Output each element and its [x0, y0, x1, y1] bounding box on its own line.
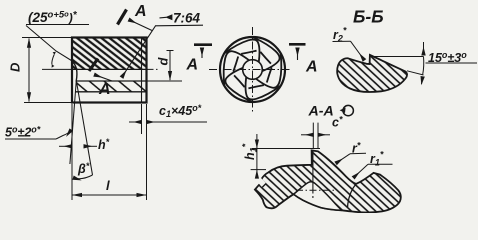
svg-text:7:64: 7:64 — [173, 11, 201, 26]
svg-text:A: A — [305, 59, 318, 76]
svg-text:A: A — [186, 57, 199, 74]
svg-text:d: d — [156, 57, 171, 66]
svg-text:D: D — [8, 62, 23, 72]
svg-text:Б-Б: Б-Б — [353, 7, 384, 27]
svg-text:A: A — [134, 3, 147, 20]
svg-text:A: A — [98, 81, 111, 98]
svg-text:l: l — [106, 178, 110, 193]
svg-text:A-A: A-A — [308, 104, 334, 120]
